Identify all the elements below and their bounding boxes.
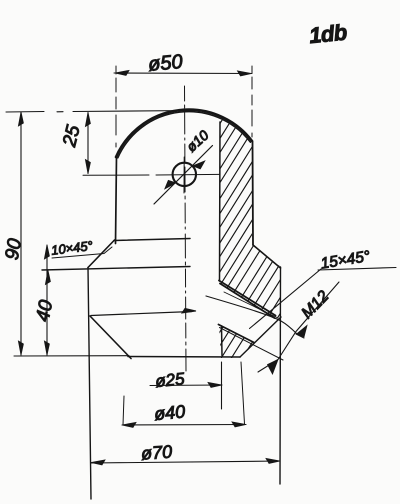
shoulder lower line <box>42 267 190 271</box>
dim dia70 line <box>91 461 280 463</box>
dim 90 top arrow <box>18 112 23 126</box>
bore wall upper <box>219 122 222 281</box>
bore wall lower <box>221 326 224 356</box>
thread line upper <box>224 292 278 318</box>
hatch lower triangle <box>197 98 400 368</box>
wide section left edge and dia70 extension <box>88 268 91 500</box>
dia70 right arrow <box>266 458 280 463</box>
dia40 right arrow <box>232 422 246 427</box>
hole leader line <box>154 146 213 205</box>
dome arc <box>116 110 252 157</box>
svg-text:ø70: ø70 <box>140 442 172 464</box>
dim 90 bottom arrow <box>18 341 23 355</box>
15x45 underline <box>318 268 396 271</box>
right body edge <box>252 142 255 246</box>
left body edge <box>116 156 117 244</box>
dim dia25 line <box>150 384 222 387</box>
dim 90 line <box>20 112 22 355</box>
svg-text:90: 90 <box>2 237 26 262</box>
hole axis line <box>206 296 297 334</box>
svg-text:ø25: ø25 <box>154 369 186 391</box>
dim 40 top arrow <box>44 245 49 259</box>
M12 dim line <box>258 282 339 372</box>
leader 10x45 <box>52 247 112 258</box>
svg-text:ø50: ø50 <box>147 51 183 76</box>
centerline vertical <box>185 86 187 371</box>
dim 40 mid arrow <box>45 271 50 285</box>
shoulder top line <box>114 239 190 241</box>
svg-text:ø40: ø40 <box>153 401 186 424</box>
chamfer right <box>253 245 281 268</box>
svg-text:25: 25 <box>59 123 85 150</box>
dim 40 bottom arrow <box>44 341 49 355</box>
centerline horizontal <box>83 173 220 176</box>
hole leader upper arrow <box>193 161 205 169</box>
svg-text:M12: M12 <box>299 288 333 322</box>
dome arc double stroke <box>118 112 251 158</box>
M12 hole upper wall <box>219 281 276 316</box>
dia50 left extension <box>115 66 117 156</box>
dim 25 top arrow <box>85 113 90 127</box>
top extension line <box>6 111 192 113</box>
bottom chamfer left <box>90 316 131 359</box>
mid horizontal line with arrow <box>91 312 192 316</box>
bore extension dia25 <box>221 362 223 409</box>
chamfer 10x45 left <box>88 240 115 268</box>
svg-text:40: 40 <box>32 298 57 323</box>
15x45 leader <box>250 269 322 329</box>
wide section right edge and dia70 extension <box>279 267 282 484</box>
dim dia40 line <box>122 424 246 427</box>
bottom face <box>128 356 240 359</box>
svg-text:1db: 1db <box>308 19 348 48</box>
M12 arrow lower <box>268 360 279 375</box>
dim 25 line <box>87 113 89 174</box>
hole leader lower arrow <box>165 180 176 189</box>
thread line lower <box>220 328 284 361</box>
dia40 left extension <box>123 396 124 425</box>
dia25 arrow <box>208 382 222 387</box>
hatch upper section <box>67 98 400 368</box>
dia50 right arrow <box>238 71 252 76</box>
M12 hole lower wall <box>219 325 255 343</box>
dim 25 bottom arrow <box>85 160 90 174</box>
dim 40 line <box>46 245 48 355</box>
mouth face line <box>240 317 281 357</box>
bottom extension line <box>14 355 129 357</box>
dim dia50 line <box>114 72 252 75</box>
hole centerline cross <box>183 157 185 193</box>
dia50 left arrow <box>115 70 129 75</box>
M12 arrow upper <box>297 326 308 338</box>
dia40 right extension <box>241 362 245 424</box>
dia50 right extension <box>251 66 253 141</box>
dia70 left arrow <box>91 460 105 465</box>
dia40 left arrow <box>122 422 136 427</box>
hole dia10 circle <box>173 163 196 186</box>
